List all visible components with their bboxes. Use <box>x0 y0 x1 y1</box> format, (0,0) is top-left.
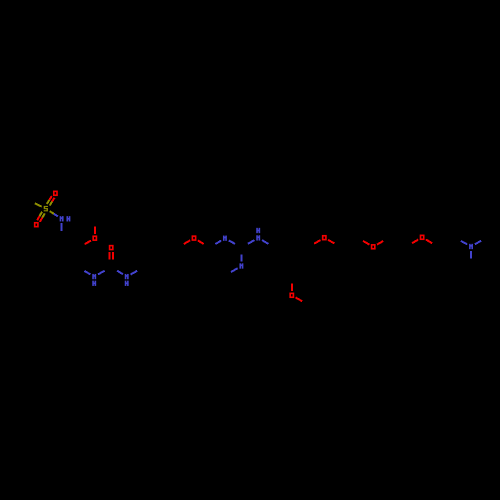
nitrogen N label anilino NH <box>256 235 258 240</box>
double bond S=O lower <box>40 212 43 216</box>
bond O(PEG3)-CH2 left <box>412 240 418 244</box>
bond N3-C2 pyrimidine <box>229 240 235 244</box>
double bond S=O upper <box>50 202 53 206</box>
nitrogen N label urea left <box>92 274 94 279</box>
H label urea left NH <box>92 281 94 286</box>
bond N(urea left)-C carbonyl <box>98 271 105 275</box>
bond NH(anilino)-ringC <box>262 240 268 244</box>
nitrogen N label pyrimidine N3 <box>223 236 225 241</box>
oxygen O label sulfonyl lower <box>35 223 38 227</box>
bond N(NMe2)-CH3 lower <box>470 251 472 259</box>
bond N1-C6 pyrimidine <box>231 268 238 272</box>
oxygen O label PEG O1 <box>323 236 326 240</box>
oxygen O label aryl ether <box>192 236 195 240</box>
bond N(urea right)-C carbonyl <box>117 271 123 275</box>
oxygen O label urea carbonyl <box>110 246 113 250</box>
bond N(urea right)-ringB <box>131 271 138 275</box>
sulfur S label <box>44 206 45 207</box>
bond O(PEG1)-CH2 <box>328 240 334 244</box>
bond O(ether)-ringB <box>184 240 190 244</box>
H label urea right NH <box>125 281 127 286</box>
bond O(methoxyC)-ringC <box>291 284 293 291</box>
nitrogen N label pyrimidine N1 <box>239 263 241 268</box>
bond O(methoxyA)-ringA <box>85 241 91 245</box>
bond N1-C2 pyrimidine <box>240 255 242 262</box>
bond N3-C4 pyrimidine <box>215 241 221 245</box>
bond O(PEG3)-CH2 right <box>426 240 432 244</box>
H label anilino NH <box>256 228 258 233</box>
bond N(NMe2)-CH3 upper <box>475 241 481 245</box>
bond O(methoxyC)-CH3 <box>296 298 303 302</box>
H label sulfonamide NH <box>66 216 68 221</box>
bond S-N sulfur half <box>50 211 54 214</box>
bond O(ether)-pyrimidine C4 <box>198 240 204 244</box>
nitrogen N label dimethylamino <box>469 244 471 249</box>
bond N(urea left)-ringA <box>84 271 90 275</box>
bond S-N nitrogen half <box>54 214 58 217</box>
oxygen O label methoxy A <box>93 236 96 240</box>
oxygen O label sulfonyl upper <box>54 191 57 195</box>
bond O(PEG1)-ringC <box>314 240 320 244</box>
bond O(PEG2)-CH2 left <box>363 241 369 245</box>
nitrogen N label sulfonamide <box>60 216 62 221</box>
oxygen O label PEG O3 <box>420 235 423 239</box>
oxygen O label methoxy C <box>290 293 293 297</box>
oxygen O label PEG O2 <box>372 245 375 249</box>
bond S-CH3 methyl stub <box>35 203 42 206</box>
double bond C=O urea <box>109 252 111 260</box>
bond O(PEG2)-CH2 right <box>377 241 383 245</box>
nitrogen N label urea right <box>125 274 127 279</box>
bond N(NMe2)-CH2 <box>461 241 467 245</box>
bond NH(anilino)-C2 <box>248 240 255 244</box>
bond O(methoxyA)-CH3 <box>94 226 96 234</box>
bond N-ringA vertical <box>61 223 63 231</box>
